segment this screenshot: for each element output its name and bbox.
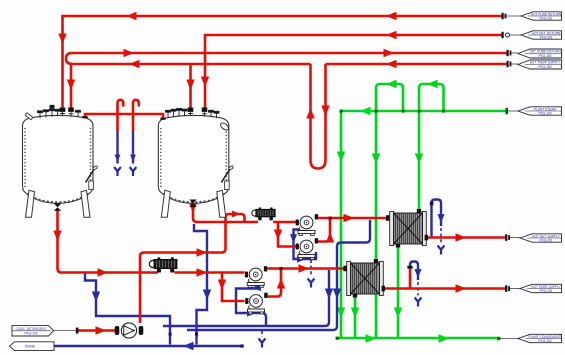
pipe: HX2 vent stub [409, 269, 412, 289]
pipe: plant steam header [341, 110, 508, 113]
blue arrows [115, 155, 121, 162]
thin leaders to flags [53, 16, 521, 339]
flag: CONC. DETERGENT [12, 326, 54, 336]
pump P1 [296, 214, 318, 235]
pipe: hot pure return (top) [63, 16, 504, 108]
tank T2 shoulder handhole [219, 122, 229, 132]
svg-text:PKG-100: PKG-100 [538, 112, 551, 116]
pipe: HX1 condensate drop [397, 244, 400, 338]
pipe: pump A outlet to HX1 [318, 217, 387, 220]
tank T1 red inlet nozzle valves [60, 108, 88, 119]
tank T1 bottom valve [54, 204, 61, 211]
svg-text:PKG-100: PKG-100 [24, 332, 37, 336]
pipe: branch down to pump B [278, 222, 296, 247]
svg-text:PKG-180: PKG-180 [538, 65, 551, 69]
pipe: pump AB casing drain loop [294, 230, 317, 260]
pipe: candy cane 1 blue lower [116, 130, 118, 164]
svg-text:DET. PUMP SUPPLY: DET. PUMP SUPPLY [530, 61, 561, 65]
svg-text:CONC. DETERGENT: CONC. DETERGENT [16, 327, 47, 331]
pump P4 [245, 293, 267, 314]
flag: HOT DETERGENT RETURN [521, 31, 562, 39]
pipe: tank1 line drain tap [85, 272, 170, 345]
steam loop 2 [419, 84, 444, 111]
pipe: steam drop to HX2 [375, 111, 378, 338]
pipe: conc detergent riser [140, 222, 226, 323]
pipe: HX1 outlet to hot detergent supply [426, 236, 506, 239]
flag: DRAIN [10, 342, 55, 351]
junction dots blue [169, 202, 434, 348]
heat exchanger HX2 [347, 262, 384, 296]
HX2 vent stub flange [407, 266, 412, 269]
tank T2 [158, 115, 229, 217]
filter F1 (upper) [252, 208, 275, 221]
Y drain symbols [114, 167, 121, 176]
pipe: pump D outlet riser [268, 269, 282, 297]
pipe: blue header 1 [163, 270, 329, 326]
flag: HOT DETERGENT SUPPLY [520, 234, 562, 242]
red arrows [126, 12, 137, 20]
tank T2 red inlet nozzle valves [160, 108, 207, 120]
tank T2 bottom valve [189, 200, 196, 207]
heat exchanger HX1 [390, 212, 427, 246]
flag: HOT PURE SUPPLY [520, 284, 562, 292]
svg-text:PKG-100: PKG-100 [538, 339, 551, 343]
HX2 nozzles [374, 259, 378, 263]
flag: HOT PURE RETURN [521, 12, 562, 20]
pump P3 [245, 266, 267, 287]
flag: DETERGENT PUMP SUPPLY [518, 60, 562, 69]
pipe: HX2 outlet to hot pure supply [383, 287, 507, 290]
pipe: tank2 bottom outlet [193, 203, 258, 222]
pipe: bridge loop [226, 214, 245, 221]
pipe: hot detergent return [205, 35, 503, 110]
filter F2 (lower) [149, 257, 177, 272]
gear pump GP1 [115, 323, 144, 338]
pipe: blue header 2 + tap from red HX1 feed [187, 220, 370, 330]
tank T1 [23, 115, 94, 217]
pipe: pump C outlet to HX2 [268, 267, 346, 270]
tank T2 top nozzles [163, 109, 219, 120]
pipe: filterA to pump A [273, 221, 296, 224]
svg-text:PKG-201: PKG-201 [539, 239, 552, 243]
steam loop 1 [376, 84, 403, 111]
pipe: candy cane 2 blue lower [132, 130, 134, 164]
flag: DETERGENT PUMP RETURN [518, 49, 562, 58]
flag: PLANT STEAM [518, 107, 562, 115]
svg-text:PKG-201: PKG-201 [539, 289, 552, 293]
pipe: pump B outlet riser [318, 218, 331, 242]
pipe: branch down to pump D [222, 273, 245, 302]
svg-text:PKG-180: PKG-180 [538, 54, 551, 58]
pipe: HX2 condensate drop [354, 294, 357, 338]
tank T1 top nozzles [38, 105, 81, 118]
HX1 nozzles [417, 209, 421, 213]
tank T1 side agitator [86, 169, 95, 183]
line end flanges (right side) [76, 13, 512, 334]
pipe: deep seal loop on supply header [311, 64, 326, 169]
pipe: tank1 feed from supply header [70, 64, 73, 108]
tank T2 side agitator [221, 169, 230, 183]
green arrows [360, 107, 371, 115]
pipe: candy cane 2 red [133, 100, 139, 131]
pipe: candy cane 1 red [118, 100, 124, 131]
tank T1 shoulder fitting [25, 113, 33, 120]
red junction dots [279, 217, 331, 271]
pipe: tank2 drain [194, 224, 207, 345]
pipe: drain header to DRAIN flag [54, 345, 242, 347]
pipe: pump CD casing drain loop [236, 283, 266, 326]
pipe: conc detergent inlet [78, 329, 117, 332]
green junction dots [336, 110, 501, 341]
flag: PLANT CONDENSATE [518, 334, 562, 342]
pump P2 [296, 238, 318, 259]
pipe: steam branch down left [340, 111, 343, 338]
pipe: steam drop to HX1 [418, 111, 421, 213]
svg-text:DRAIN: DRAIN [25, 345, 36, 349]
svg-text:DET. PUMP RETURN: DET. PUMP RETURN [529, 50, 561, 54]
dashed drain gaps [310, 260, 312, 276]
pipe: tank1 bottom outlet to HX2 feed line [58, 210, 159, 273]
pipe: HX2 outlet drain loop [410, 262, 418, 281]
svg-text:PKG-201: PKG-201 [539, 17, 552, 21]
pipe: HX1 outlet drain loop [432, 200, 442, 238]
pipe: tank top link line [85, 114, 163, 119]
pipe: tank2 feed from supply header [189, 64, 192, 108]
pipe: detergent pump return header y53 [66, 53, 508, 64]
svg-text:PKG-201: PKG-201 [539, 36, 552, 40]
pipe: plant condensate header [337, 337, 499, 340]
